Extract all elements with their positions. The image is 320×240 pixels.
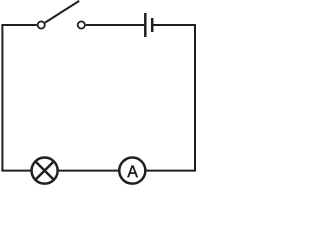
ammeter A1 : outline circle: [119, 158, 145, 184]
switch S1 : lever arm: [45, 1, 79, 23]
wire: lamp to ammeter: [59, 170, 119, 172]
ammeter A1 : letter A label: [127, 165, 138, 177]
wire: switch right terminal to battery positive plate: [86, 24, 145, 26]
lamp L1 : cross stroke 1: [35, 161, 53, 179]
lamp L1 : outline circle: [32, 158, 58, 184]
wire: right side loop (battery to top-right corner, right vertical, bottom-right run to ammeter): [147, 25, 196, 171]
battery cell B1 : short (negative) plate: [151, 18, 154, 32]
switch S1 : right terminal circle: [78, 21, 85, 28]
wire: left side loop (top-left corner, left vertical, bottom-left run to lamp): [2, 25, 36, 171]
lamp L1 : cross stroke 2: [35, 161, 53, 179]
battery cell B1 : long (positive) plate: [144, 13, 147, 37]
switch S1 (open) : left terminal circle: [38, 21, 45, 28]
